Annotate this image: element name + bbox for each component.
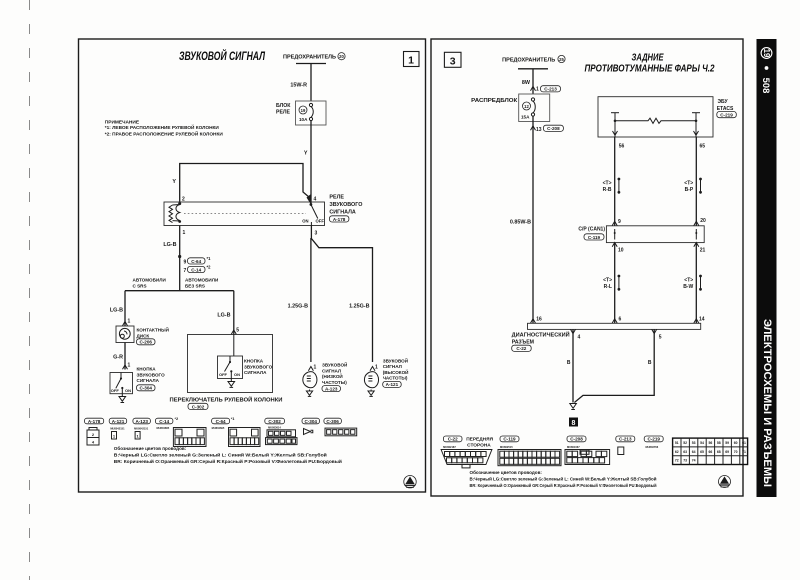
pin 4: [571, 329, 581, 340]
svg-text:C-213: C-213: [619, 437, 632, 442]
svg-text:C-208: C-208: [570, 437, 583, 442]
svg-text:20: 20: [700, 218, 706, 224]
svg-text:MU801067: MU801067: [567, 445, 580, 449]
svg-text:C-14: C-14: [159, 419, 169, 424]
fuse bar: [296, 63, 326, 65]
svg-text:C-302: C-302: [192, 404, 205, 409]
svg-text:52: 52: [683, 441, 687, 445]
svg-text:C-22: C-22: [516, 346, 526, 351]
svg-text:16: 16: [536, 317, 542, 323]
relay label A-178: [329, 195, 362, 223]
connector drawing C-14: [157, 426, 207, 447]
wire to contact disc: [124, 291, 126, 326]
svg-text:АВТОМОБИЛИ: АВТОМОБИЛИ: [133, 278, 166, 283]
svg-text:7: 7: [184, 268, 187, 274]
svg-text:ON: ON: [125, 388, 131, 393]
ground wire B right: [574, 329, 654, 402]
svg-text:ЭЛЕКТРОСХЕМЫ И РАЗЪЕМЫ: ЭЛЕКТРОСХЕМЫ И РАЗЪЕМЫ: [761, 319, 773, 487]
svg-text:*2: *2: [207, 265, 212, 270]
svg-text:C-304: C-304: [304, 419, 317, 424]
horn A-121 symbol: [364, 372, 378, 388]
fuse 12 15A element: [531, 98, 535, 116]
RIGHT PANEL FRAME: [431, 39, 743, 496]
svg-text:C-206: C-206: [139, 340, 152, 345]
label fuse 20: [283, 53, 345, 61]
pin 5 arrow into C-302: [231, 328, 239, 335]
svg-text:C-22: C-22: [448, 437, 458, 442]
svg-text:65: 65: [700, 144, 706, 150]
svg-text:LG-B: LG-B: [110, 308, 123, 314]
svg-text:12: 12: [524, 104, 529, 109]
svg-text:*2: ПРАВОЕ РАСПОЛОЖЕНИЕ РУЛЕВО: *2: ПРАВОЕ РАСПОЛОЖЕНИЕ РУЛЕВОЙ КОЛОНКИ: [105, 131, 223, 136]
horn relay A-178 box: [164, 202, 325, 226]
svg-text:B-P: B-P: [685, 187, 694, 193]
svg-text:1.25G-B: 1.25G-B: [349, 304, 369, 310]
relay switch: [302, 203, 324, 225]
svg-text:54: 54: [700, 441, 704, 445]
svg-text:ПРОТИВОТУМАННЫЕ ФАРЫ Ч.2: ПРОТИВОТУМАННЫЕ ФАРЫ Ч.2: [585, 64, 715, 75]
svg-text:19: 19: [301, 108, 306, 113]
pin 1 arrow into C-206: [123, 319, 131, 326]
svg-text:1: 1: [536, 87, 539, 93]
svg-text:ON: ON: [234, 372, 240, 377]
connector drawing A-123: [134, 426, 149, 439]
svg-text:1: 1: [128, 319, 131, 325]
wire split bar: [125, 290, 234, 292]
pin 16: [531, 317, 542, 324]
svg-text:СИГНАЛ: СИГНАЛ: [322, 368, 341, 373]
svg-text:РАСПРЕДБЛОК: РАСПРЕДБЛОК: [471, 98, 518, 104]
connector C-14 pin 7: [184, 265, 212, 275]
svg-text:64: 64: [692, 450, 696, 454]
svg-text:60: 60: [734, 441, 738, 445]
note text: [105, 119, 223, 136]
svg-text:15W-R: 15W-R: [290, 82, 307, 88]
connector label C-302: [265, 418, 285, 424]
svg-text:<T>: <T>: [684, 180, 693, 186]
page number 19 508: [761, 48, 772, 94]
ground horn A-121: [368, 390, 374, 397]
svg-text:B: B: [567, 360, 571, 366]
svg-text:C-219: C-219: [647, 437, 660, 442]
column switch caption: [170, 396, 283, 410]
svg-text:СИГНАЛА: СИГНАЛА: [329, 210, 355, 216]
relay coil: [169, 205, 181, 223]
color legend right: [470, 469, 657, 488]
wire from relay pin 3: [311, 226, 372, 363]
svg-text:ДИСК: ДИСК: [137, 333, 150, 338]
horn A-121 labels: [383, 356, 409, 387]
svg-text:C-119: C-119: [588, 235, 601, 240]
svg-text:9: 9: [184, 260, 187, 266]
connector label C-14: [155, 416, 179, 424]
connector drawing C-219 table: [646, 438, 748, 464]
svg-text:ON: ON: [302, 219, 308, 224]
svg-text:1: 1: [183, 230, 186, 236]
svg-text:0.85W-B: 0.85W-B: [510, 220, 531, 226]
ground inside C-302: [228, 379, 235, 388]
svg-text:C-306: C-306: [326, 419, 339, 424]
contact disc C-206: [116, 326, 134, 343]
horn A-123 labels: [322, 361, 347, 392]
connector label A-178: [85, 418, 104, 424]
black side tab: [757, 39, 777, 497]
connector drawing C-22: [441, 445, 492, 468]
svg-text:C-302: C-302: [268, 419, 281, 424]
branch label no SRS: [185, 278, 218, 289]
connector C-213 pin 1: [531, 86, 561, 93]
pin 20: [694, 218, 706, 226]
svg-text:B: B: [648, 360, 652, 366]
svg-text:3: 3: [315, 231, 318, 237]
svg-text:КНОПКА: КНОПКА: [244, 359, 264, 364]
horn button labels C-304: [137, 367, 166, 391]
svg-text:1: 1: [314, 365, 317, 371]
ETACS pin 56: [613, 121, 625, 150]
svg-text:ЗВУКОВОЙ: ЗВУКОВОЙ: [322, 361, 347, 368]
svg-text:20: 20: [339, 54, 344, 59]
svg-text:Y: Y: [304, 151, 308, 157]
connector label C-306: [324, 418, 342, 424]
svg-text:ЗАДНИЕ: ЗАДНИЕ: [632, 53, 664, 64]
svg-text:10: 10: [618, 248, 624, 254]
connector drawing A-178: [87, 428, 99, 446]
svg-text:LG-B: LG-B: [217, 313, 230, 319]
svg-text:АВТОМОБИЛИ: АВТОМОБИЛИ: [185, 278, 218, 283]
resistor inside ETACS: [611, 113, 700, 124]
connector label C-119: [500, 436, 519, 442]
ground wire B left: [567, 329, 573, 402]
mitsubishi logo left: [404, 476, 416, 488]
connector label C-22: [443, 436, 493, 448]
svg-text:ЗВУКОВОЙ: ЗВУКОВОЙ: [383, 356, 408, 363]
pin 1 arrow horn A-123: [308, 365, 316, 371]
connector drawing C-119: [498, 445, 561, 466]
title: ЗАДНИЕ ПРОТИВОТУМАННЫЕ ФАРЫ Ч.2: [585, 53, 715, 75]
svg-text:ДИАГНОСТИЧЕСКИЙ: ДИАГНОСТИЧЕСКИЙ: [512, 331, 570, 339]
svg-text:62: 62: [675, 450, 679, 454]
svg-text:C/P (CAN1): C/P (CAN1): [578, 227, 605, 233]
svg-text:15A: 15A: [521, 115, 530, 120]
connector drawing C-213: [618, 447, 624, 455]
connector label C-213: [616, 436, 635, 442]
svg-text:C-64: C-64: [216, 419, 226, 424]
svg-text:OFF: OFF: [316, 219, 325, 224]
fuse 19 10A element: [309, 103, 313, 120]
svg-text:РЕЛЕ: РЕЛЕ: [276, 110, 291, 116]
svg-text:21: 21: [700, 248, 706, 254]
ground horn A-123: [306, 390, 312, 397]
svg-text:5: 5: [659, 334, 662, 340]
ground symbol: [570, 404, 577, 410]
svg-text:66: 66: [709, 450, 713, 454]
switch labels inside: [244, 359, 273, 376]
diagnostic connector box C-22: [528, 323, 701, 329]
wire R-L: [603, 243, 620, 324]
svg-text:53: 53: [692, 441, 696, 445]
svg-text:71: 71: [742, 450, 746, 454]
color legend left: [114, 445, 342, 464]
svg-text:(ВЫСОКОЙ: (ВЫСОКОЙ: [383, 368, 409, 375]
svg-text:ЗВУКОВОЙ СИГНАЛ: ЗВУКОВОЙ СИГНАЛ: [179, 50, 266, 63]
connector drawing C-208: [565, 445, 610, 465]
node junction: [178, 255, 181, 258]
svg-text:*1: *1: [207, 256, 212, 261]
svg-text:ЗВУКОВОГО: ЗВУКОВОГО: [137, 372, 166, 377]
svg-text:74: 74: [692, 459, 696, 463]
svg-text:B:Черный LG:Светло зеленый G:З: B:Черный LG:Светло зеленый G:Зеленый L: …: [114, 453, 327, 458]
svg-text:ПЕРЕДНЯЯ: ПЕРЕДНЯЯ: [466, 436, 493, 442]
svg-text:68: 68: [717, 450, 721, 454]
connector drawing A-121: [110, 426, 125, 439]
svg-text:G-R: G-R: [113, 355, 123, 361]
svg-text:B:Черный LG:Светло зеленый G:З: B:Черный LG:Светло зеленый G:Зеленый L: …: [470, 477, 657, 482]
svg-text:508: 508: [761, 78, 772, 94]
svg-text:РАЗЪЕМ: РАЗЪЕМ: [512, 339, 534, 345]
svg-text:ЭБУ: ЭБУ: [718, 99, 729, 105]
svg-text:14: 14: [699, 317, 705, 323]
svg-text:ПРЕДОХРАНИТЕЛЬ: ПРЕДОХРАНИТЕЛЬ: [502, 58, 555, 64]
pin 1 arrow into C-304: [123, 363, 131, 370]
svg-text:58: 58: [717, 441, 721, 445]
svg-text:C-64: C-64: [191, 259, 201, 264]
svg-text:СТОРОНА: СТОРОНА: [467, 442, 491, 448]
svg-text:ПРЕДОХРАНИТЕЛЬ: ПРЕДОХРАНИТЕЛЬ: [283, 55, 336, 61]
wire G-R: [124, 343, 126, 370]
svg-text:1: 1: [375, 365, 378, 371]
svg-text:C-304: C-304: [139, 386, 152, 391]
svg-text:MU802515: MU802515: [500, 445, 513, 449]
svg-text:R-B: R-B: [603, 187, 612, 193]
svg-text:MU8042151: MU8042151: [110, 426, 125, 430]
svg-text:61: 61: [742, 441, 746, 445]
svg-text:OFF: OFF: [111, 388, 120, 393]
svg-text:70: 70: [734, 450, 738, 454]
svg-text:ПЕРЕКЛЮЧАТЕЛЬ РУЛЕВОЙ КОЛОНКИ: ПЕРЕКЛЮЧАТЕЛЬ РУЛЕВОЙ КОЛОНКИ: [170, 396, 283, 404]
CAN labels: [578, 227, 605, 240]
svg-text:1: 1: [408, 55, 414, 67]
connector C-208 pin 13: [531, 116, 564, 323]
contact disc labels: [137, 326, 169, 345]
svg-text:72: 72: [675, 459, 679, 463]
ground ref 8: [569, 418, 578, 428]
svg-text:ЧАСТОТЫ): ЧАСТОТЫ): [322, 380, 347, 385]
svg-text:A-178: A-178: [333, 217, 346, 222]
svg-text:9: 9: [618, 219, 621, 225]
fold line: [29, 0, 31, 580]
svg-text:ЧАСТОТЫ): ЧАСТОТЫ): [383, 376, 408, 381]
ETACS pin 65: [694, 121, 706, 150]
svg-text:LG-B: LG-B: [163, 242, 176, 248]
pin 10: [612, 243, 624, 254]
svg-text:C-14: C-14: [191, 267, 201, 272]
wire B-W: [683, 243, 702, 324]
svg-text:СИГНАЛ: СИГНАЛ: [383, 364, 402, 369]
branch wire to coil pin 2: [180, 164, 310, 203]
steering column switch box: [188, 335, 273, 393]
ETACS labels: [717, 99, 737, 118]
svg-text:13: 13: [536, 127, 542, 133]
pin 21: [694, 243, 706, 254]
svg-text:БЛОК: БЛОК: [276, 103, 291, 109]
svg-text:БЕЗ SRS: БЕЗ SRS: [185, 284, 205, 289]
svg-text:MU804685: MU804685: [157, 426, 170, 430]
svg-text:63: 63: [683, 450, 687, 454]
ground under C-304: [119, 394, 126, 403]
svg-text:56: 56: [709, 441, 713, 445]
svg-text:25: 25: [559, 57, 564, 62]
svg-text:56: 56: [619, 144, 625, 150]
junction at pin 4: [307, 194, 312, 205]
pin 6: [612, 317, 621, 324]
connector label C-304: [302, 418, 320, 424]
svg-text:51: 51: [675, 441, 679, 445]
relay block box: [276, 101, 326, 125]
svg-text:8: 8: [572, 420, 576, 427]
LEFT PANEL FRAME: [79, 39, 426, 492]
svg-text:C-208: C-208: [547, 126, 560, 131]
pin 9: [612, 219, 621, 226]
svg-text:A-123: A-123: [135, 419, 148, 424]
svg-text:*1: ЛЕВОЕ РАСПОЛОЖЕНИЕ РУЛЕВОЙ: *1: ЛЕВОЕ РАСПОЛОЖЕНИЕ РУЛЕВОЙ КОЛОНКИ: [105, 125, 219, 130]
svg-text:A-123: A-123: [325, 386, 338, 391]
connector label C-208: [567, 436, 586, 442]
svg-text:1: 1: [128, 363, 131, 369]
connector label C-219: [644, 436, 663, 442]
connector drawing C-302: [266, 426, 298, 445]
svg-text:OFF: OFF: [219, 372, 228, 377]
distribution block box: [519, 94, 550, 122]
wire 8W: [532, 69, 534, 94]
svg-text:<T>: <T>: [603, 277, 612, 283]
svg-text:B-W: B-W: [683, 284, 693, 290]
horn switch inside C-302: [218, 356, 243, 379]
svg-text:MU803614: MU803614: [268, 426, 281, 430]
connector label C-64: [212, 416, 236, 424]
svg-text:19: 19: [762, 49, 771, 58]
relay link dashed: [184, 213, 306, 215]
svg-text:BR: Коричневый O:Оранжевый GR:: BR: Коричневый O:Оранжевый GR:Серый R:Кр…: [470, 483, 657, 488]
svg-text:BR: Коричневый O:Оранжевый GR:: BR: Коричневый O:Оранжевый GR:Серый R:Кр…: [114, 459, 342, 464]
svg-text:6: 6: [619, 317, 622, 323]
svg-text:Обозначение цветов проводов:: Обозначение цветов проводов:: [470, 469, 543, 475]
svg-text:C-119: C-119: [503, 437, 516, 442]
svg-text:С SRS: С SRS: [133, 284, 147, 289]
svg-text:8W: 8W: [522, 80, 531, 86]
diagnostic labels: [512, 331, 570, 352]
ETACS ECU box C-219: [598, 97, 713, 137]
svg-text:A-121: A-121: [112, 419, 125, 424]
svg-text:3: 3: [450, 55, 456, 67]
wire R-B: [603, 137, 621, 226]
page tab 3: [444, 52, 461, 67]
label fuse 25: [502, 55, 565, 63]
connector label A-121: [109, 418, 127, 424]
connector C-64 pin 9: [184, 256, 212, 266]
svg-text:СИГНАЛА: СИГНАЛА: [244, 370, 267, 375]
pin 1 arrow horn A-121: [370, 365, 378, 371]
svg-text:Обозначение цветов проводов:: Обозначение цветов проводов:: [114, 445, 187, 451]
svg-text:5: 5: [236, 328, 239, 334]
wire to low horn: [310, 238, 312, 362]
branch label SRS: [133, 278, 166, 289]
svg-text:ЗВУКОВОГО: ЗВУКОВОГО: [244, 364, 273, 369]
svg-text:КНОПКА: КНОПКА: [137, 367, 157, 372]
CAN joint connector box C-119: [606, 226, 704, 243]
mitsubishi logo right: [719, 476, 731, 488]
svg-text:C-213: C-213: [544, 87, 557, 92]
svg-text:(НИЗКОЙ: (НИЗКОЙ: [322, 372, 343, 379]
connector drawing C-64: [212, 426, 260, 447]
wire Y from block to relay pin 4: [310, 121, 312, 204]
svg-text:1.25G-B: 1.25G-B: [288, 304, 308, 310]
svg-text:73: 73: [683, 459, 687, 463]
svg-text:C-219: C-219: [720, 113, 733, 118]
connector drawing C-304: [304, 429, 313, 435]
svg-text:R-L: R-L: [604, 284, 612, 290]
svg-text:4: 4: [578, 334, 581, 340]
svg-text:A-178: A-178: [88, 419, 101, 424]
svg-text:MU8042151: MU8042151: [134, 426, 149, 430]
svg-text:<T>: <T>: [603, 180, 612, 186]
svg-text:59: 59: [725, 441, 729, 445]
wire inside: [233, 335, 235, 357]
svg-text:65: 65: [700, 450, 704, 454]
wire 15W-R: [310, 64, 312, 102]
svg-text:КОНТАКТНЫЙ: КОНТАКТНЫЙ: [137, 326, 169, 333]
wire B-P: [684, 137, 702, 226]
fuse bar: [518, 68, 548, 70]
svg-text:10A: 10A: [299, 117, 308, 122]
svg-text:РЕЛЕ: РЕЛЕ: [329, 195, 344, 201]
svg-text:MU803766: MU803766: [646, 445, 659, 449]
svg-text:MU802187: MU802187: [443, 445, 456, 449]
svg-text:69: 69: [725, 450, 729, 454]
horn A-123 symbol: [303, 372, 317, 388]
pin 14: [694, 317, 705, 324]
connector label A-123: [133, 418, 151, 424]
pin 5: [652, 329, 662, 340]
svg-text:MU804695: MU804695: [212, 426, 225, 430]
svg-text:A-121: A-121: [386, 382, 399, 387]
CAN internal stubs: [614, 229, 698, 240]
svg-text:<T>: <T>: [684, 277, 693, 283]
connector drawing C-306: [325, 428, 357, 436]
wire LG-B from pin 1: [179, 226, 181, 291]
wire to column switch: [233, 291, 235, 335]
svg-text:ЗВУКОВОГО: ЗВУКОВОГО: [329, 202, 362, 208]
svg-text:СИГНАЛА: СИГНАЛА: [137, 378, 160, 383]
svg-text:Y: Y: [172, 179, 176, 185]
page tab 1: [404, 52, 420, 67]
horn button C-304 box: [110, 373, 133, 394]
